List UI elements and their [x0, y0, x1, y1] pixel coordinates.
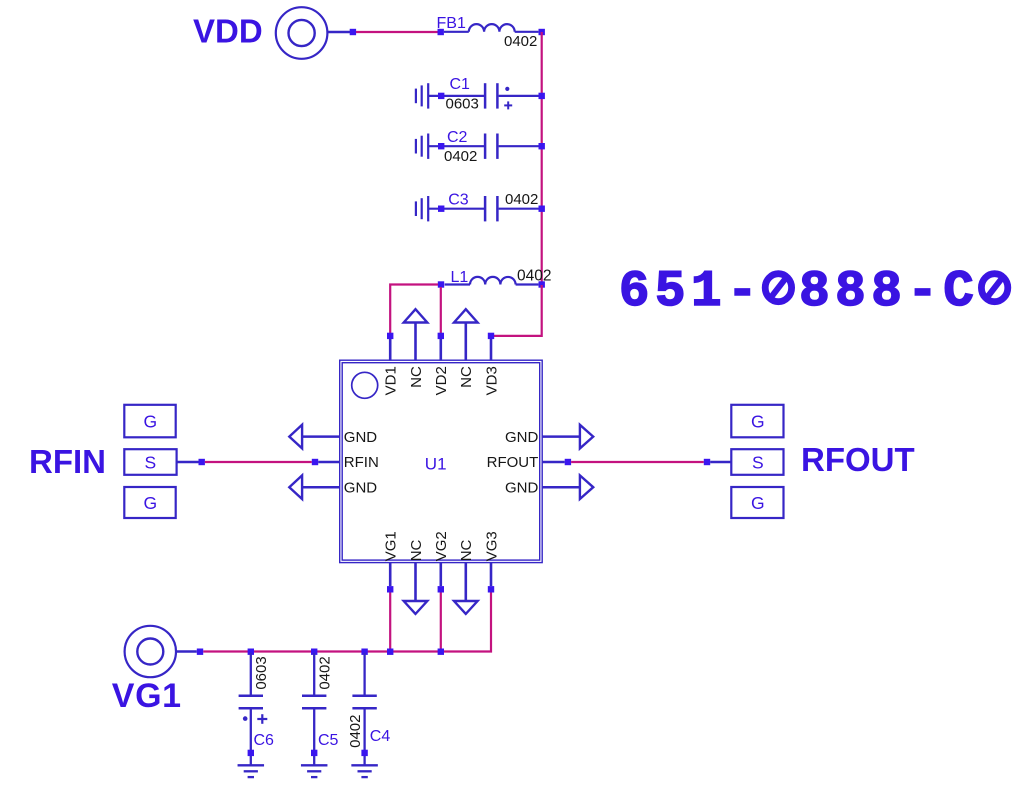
svg-text:C1: C1 — [450, 76, 471, 93]
junction square L1 pin 1 — [438, 281, 444, 287]
ground arrow left-top — [289, 425, 302, 449]
pin VG1 stub — [389, 563, 392, 587]
capacitor C6 bottom lead — [250, 708, 252, 765]
svg-text:VG1: VG1 — [112, 677, 182, 715]
pin-1 indicator circle U1 — [352, 372, 378, 398]
no-connect arrow top NC (right) — [464, 323, 467, 361]
pin GND right-top stub — [542, 435, 580, 438]
capacitor C6 top lead — [250, 653, 252, 696]
junction square L1 pin 2 — [539, 281, 545, 287]
op-amp U1 body (IC outline) — [340, 360, 543, 562]
wire L1 to VD1 — [390, 285, 438, 334]
junction square C6 gnd — [248, 750, 254, 756]
svg-text:NC: NC — [408, 539, 425, 561]
svg-text:GND: GND — [505, 429, 539, 446]
pin GND left-bottom stub — [302, 486, 340, 489]
svg-text:GND: GND — [505, 479, 539, 496]
connector VG1 (coax jack) — [125, 626, 176, 677]
wire RFIN net — [205, 461, 312, 463]
capacitor C4 top lead — [363, 653, 365, 696]
ground (rotated) for C3 — [415, 201, 417, 216]
wire C3 left — [428, 208, 484, 210]
capacitor C2 plates — [484, 134, 487, 159]
junction square FB1 pin 1 — [438, 29, 444, 35]
svg-text:NC: NC — [408, 366, 425, 388]
wire RFOUT net — [571, 461, 704, 463]
svg-text:VG1: VG1 — [383, 531, 400, 561]
junction square C2 pin 2 — [539, 143, 545, 149]
svg-text:S: S — [752, 452, 764, 472]
no-connect arrow bottom NC (left) — [414, 563, 417, 601]
GSG pad G top (RFIN) — [124, 405, 175, 438]
wire C3 right — [499, 208, 539, 210]
junction square C3 pin 1 — [438, 206, 444, 212]
svg-text:GND: GND — [344, 479, 378, 496]
svg-text:RFIN: RFIN — [344, 454, 379, 471]
junction square C1 pin 1 — [438, 93, 444, 99]
svg-text:0402: 0402 — [316, 656, 333, 689]
ground (rotated) for C1 — [415, 89, 417, 104]
polarity dot C1 — [505, 87, 509, 91]
node VD3 — [488, 333, 494, 339]
wire C1 left — [428, 95, 484, 97]
wire VG2 down — [440, 593, 442, 652]
slashed zero glyph 2 — [981, 274, 1007, 302]
junction square C4 gnd — [361, 750, 367, 756]
capacitor C5 plates — [302, 695, 326, 698]
wire RFOUT pad stub — [710, 461, 731, 463]
polarity dot C6 — [243, 716, 248, 721]
wire VG3 down and bus — [203, 593, 491, 652]
wire VG1 connector stub — [176, 650, 197, 652]
svg-text:VDD: VDD — [193, 13, 263, 50]
pin RFIN stub — [318, 461, 340, 463]
polarity plus C6 — [257, 718, 267, 720]
wire C1 right — [499, 95, 539, 97]
svg-text:NC: NC — [458, 539, 475, 561]
svg-text:G: G — [144, 412, 158, 432]
ground C4 — [351, 764, 378, 766]
wire VDD to FB1 — [356, 31, 438, 33]
pin VG2 stub — [439, 563, 442, 587]
pin VG3 stub — [490, 563, 493, 587]
junction square VG1 stub — [197, 649, 203, 655]
svg-text:FB1: FB1 — [437, 15, 466, 32]
svg-text:VD3: VD3 — [483, 366, 500, 395]
junction square FB1 pin 2 / net VDD_F — [539, 29, 545, 35]
svg-text:0603: 0603 — [446, 96, 479, 113]
ground C6 — [238, 764, 264, 766]
capacitor C4 plates — [352, 695, 376, 698]
junction square C5 tap — [311, 649, 317, 655]
wire VDD connector stub — [327, 31, 350, 33]
pin VD3 stub — [490, 339, 493, 361]
svg-text:RFOUT: RFOUT — [487, 454, 539, 471]
junction square C5 gnd — [311, 750, 317, 756]
ground arrow right-bottom — [580, 475, 593, 499]
pin VD2 stub — [439, 339, 442, 361]
wire L1 to VD3 — [494, 285, 542, 336]
node VG2 — [438, 586, 444, 592]
slashed zero glyph 1 — [765, 274, 791, 302]
junction square C3 pin 2 — [539, 206, 545, 212]
wire L1 to VD2 — [440, 287, 442, 333]
GSG pad S (RFOUT) — [731, 449, 783, 475]
ground (rotated) for C2 — [415, 139, 417, 154]
svg-text:0402: 0402 — [444, 148, 477, 165]
no-connect arrow bottom NC (right) — [464, 563, 467, 601]
junction square RFOUT pad — [704, 459, 710, 465]
GSG pad S (RFIN) — [124, 449, 176, 475]
svg-text:888-C: 888-C — [799, 264, 974, 321]
svg-text:NC: NC — [458, 366, 475, 388]
svg-text:RFIN: RFIN — [29, 443, 106, 480]
svg-text:0402: 0402 — [505, 191, 538, 208]
svg-text:GND: GND — [344, 429, 378, 446]
junction square C6 tap — [248, 649, 254, 655]
node VG1 — [387, 586, 393, 592]
svg-text:G: G — [751, 412, 765, 432]
junction square C4 tap — [361, 649, 367, 655]
GSG pad G bottom (RFIN) — [124, 487, 175, 518]
svg-text:G: G — [144, 493, 158, 513]
svg-text:C5: C5 — [318, 732, 339, 749]
capacitor C5 top lead — [313, 653, 315, 696]
capacitor C5 bottom lead — [313, 708, 315, 765]
pin GND right-bottom stub — [542, 486, 580, 489]
svg-text:0603: 0603 — [253, 656, 270, 689]
svg-text:G: G — [751, 493, 765, 513]
connector VDD (coax jack) — [276, 7, 328, 59]
svg-text:VD2: VD2 — [433, 366, 450, 395]
GSG pad G bottom (RFOUT) — [731, 487, 783, 518]
junction square C1 pin 2 — [539, 93, 545, 99]
node VD1 — [387, 333, 393, 339]
svg-text:0402: 0402 — [517, 268, 551, 285]
wire VG1 down — [389, 593, 391, 652]
inductor L1 — [445, 283, 470, 285]
wire C2 left — [428, 145, 484, 147]
svg-text:S: S — [145, 452, 157, 472]
node VD2 — [438, 333, 444, 339]
svg-text:VG3: VG3 — [483, 531, 500, 561]
node VG3 — [488, 586, 494, 592]
junction square C2 pin 1 — [438, 143, 444, 149]
capacitor C1 plates — [484, 83, 487, 108]
no-connect arrow top NC (left) — [414, 323, 417, 361]
junction square RFIN pad — [199, 459, 205, 465]
capacitor C4 bottom lead — [363, 708, 365, 765]
svg-text:0402: 0402 — [504, 33, 537, 50]
wire C2 right — [499, 145, 539, 147]
svg-text:VG2: VG2 — [433, 531, 450, 561]
polarity plus C1 — [504, 104, 512, 106]
wire net VDD_F vertical — [541, 32, 543, 285]
ground C5 — [301, 764, 328, 766]
svg-text:RFOUT: RFOUT — [801, 441, 915, 478]
GSG pad G top (RFOUT) — [731, 405, 783, 438]
svg-text:U1: U1 — [425, 454, 447, 473]
svg-text:651-: 651- — [619, 264, 758, 321]
svg-text:C2: C2 — [447, 129, 468, 146]
capacitor C3 plates — [484, 196, 487, 221]
ground arrow left-bottom — [289, 475, 302, 499]
junction square VG bus at VG1 — [387, 649, 393, 655]
pin VD1 stub — [389, 339, 392, 361]
ferrite bead FB1 — [444, 31, 469, 33]
pin GND left-top stub — [302, 435, 340, 438]
svg-text:VD1: VD1 — [383, 366, 400, 395]
ground arrow right-top — [580, 425, 593, 449]
svg-text:0402: 0402 — [347, 715, 364, 748]
wire S-pad to RFIN (blue stub) — [177, 461, 199, 463]
junction square VDD stub — [350, 29, 356, 35]
svg-text:C3: C3 — [448, 192, 469, 209]
pin RFOUT stub — [542, 461, 565, 463]
junction square RFOUT pin — [565, 459, 571, 465]
junction square RFIN pin — [312, 459, 318, 465]
svg-text:C6: C6 — [254, 732, 275, 749]
capacitor C6 plates — [239, 695, 263, 698]
junction square VG bus at VG2 — [438, 649, 444, 655]
svg-text:C4: C4 — [370, 728, 391, 745]
